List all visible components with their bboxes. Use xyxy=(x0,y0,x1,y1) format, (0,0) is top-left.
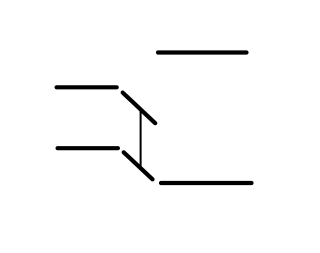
mechanical link between pole 1 and pole 2 xyxy=(140,110,142,167)
wire: upper-left terminal of switch pole 1 xyxy=(57,85,117,89)
wire: lower-left terminal of switch pole 2 xyxy=(58,146,118,150)
switch SW pole 1 lever (open, thrown down) xyxy=(123,93,156,124)
switch SW pole 2 lever xyxy=(124,152,153,179)
wire: bottom-right terminal of switch pole 2 xyxy=(161,181,252,185)
wire: top-right terminal of switch pole 1 xyxy=(158,50,247,54)
